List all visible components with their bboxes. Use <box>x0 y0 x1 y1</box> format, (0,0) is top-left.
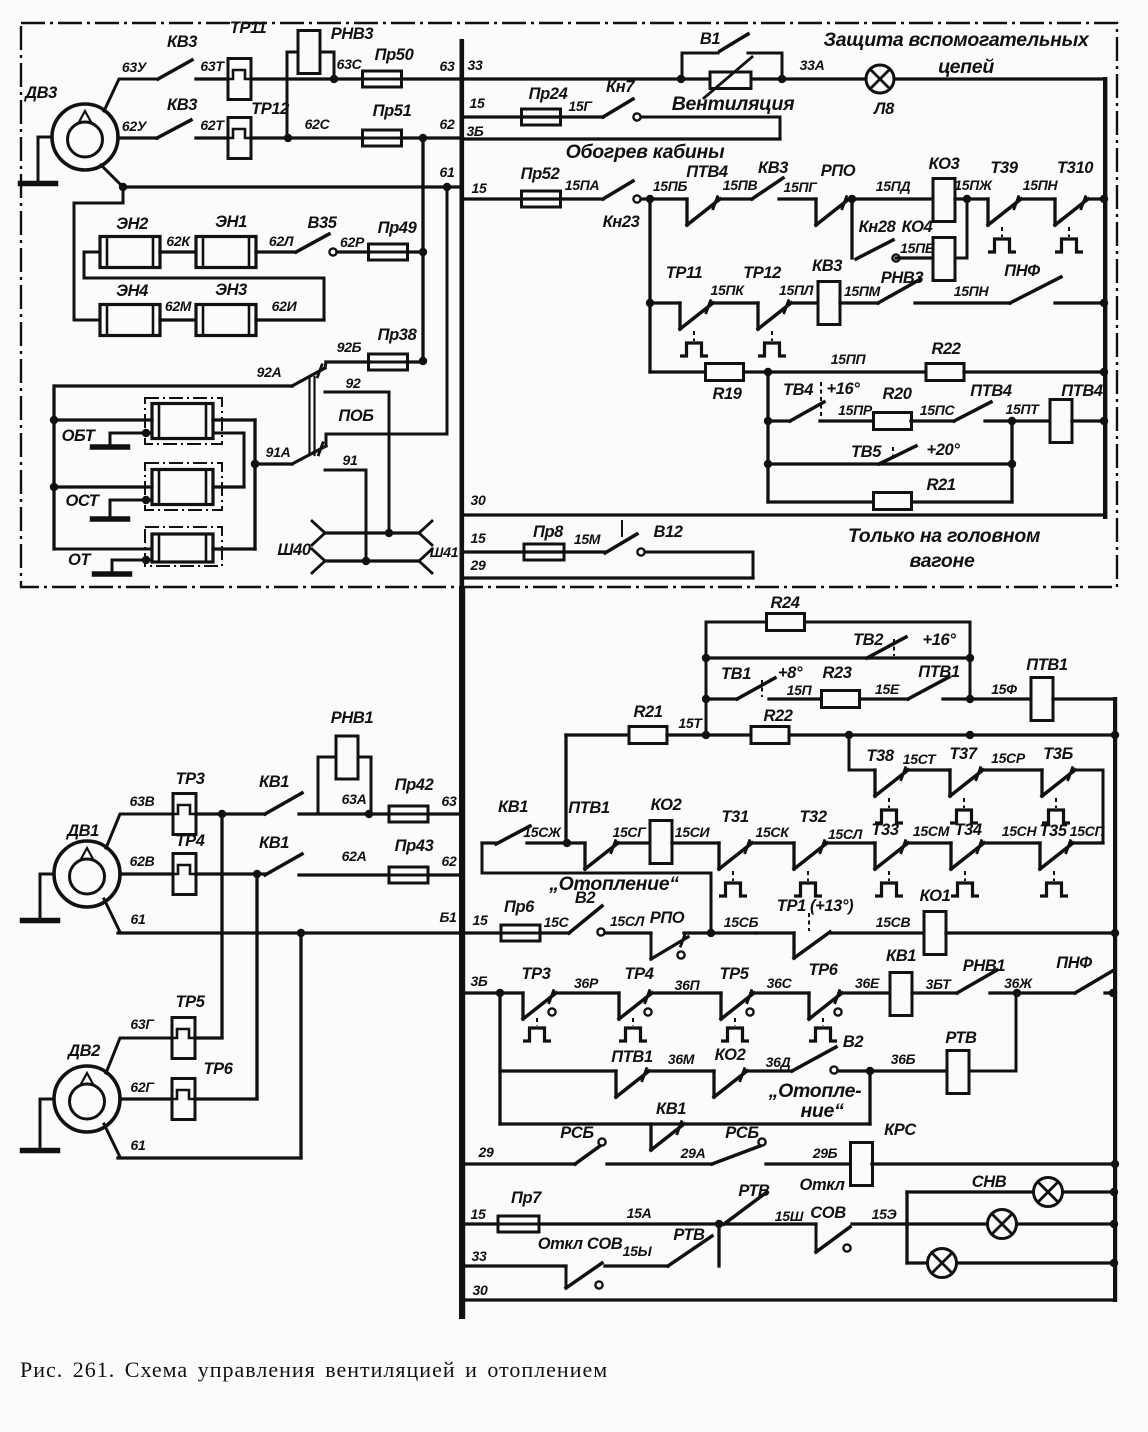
wire 62L <box>256 250 296 253</box>
wire R21 row upper <box>768 500 1012 503</box>
switch POB blade 92A <box>292 362 326 386</box>
label 61 DV2 <box>131 1137 146 1153</box>
thermal contact TR11 <box>680 301 713 356</box>
wire TR11 row start <box>650 301 680 304</box>
svg-text:15: 15 <box>471 1206 486 1222</box>
svg-text:ДВ1: ДВ1 <box>65 822 99 840</box>
lamp L8 <box>866 65 894 93</box>
svg-text:36С: 36С <box>767 975 793 991</box>
label KV1 63A <box>259 773 289 791</box>
label 15 row B <box>470 95 485 111</box>
label 62I <box>272 298 298 314</box>
label T37 <box>949 745 977 763</box>
wire 15PS <box>911 419 954 422</box>
resistor R23 <box>822 691 860 708</box>
wire 62G <box>120 1097 172 1100</box>
svg-text:ПТВ1: ПТВ1 <box>918 663 960 681</box>
svg-text:29: 29 <box>478 1144 494 1160</box>
label PTV1 15SG <box>568 799 610 817</box>
svg-text:15СЛ: 15СЛ <box>828 826 863 842</box>
device OT <box>145 527 222 566</box>
label TR3 elem <box>175 770 204 788</box>
thermal contact T34 <box>951 841 984 896</box>
label V1 <box>700 30 721 48</box>
svg-text:Т33: Т33 <box>871 821 898 839</box>
svg-text:15ПЛ: 15ПЛ <box>779 282 814 298</box>
label 15PD <box>876 178 911 194</box>
svg-text:Т310: Т310 <box>1057 159 1094 177</box>
wire 62V <box>120 872 173 875</box>
svg-text:ТР5: ТР5 <box>175 993 205 1011</box>
wire 61 lower <box>104 899 460 937</box>
label T34 <box>954 821 981 839</box>
label PTV1 blade <box>918 663 960 681</box>
thermal element TR6 <box>172 1079 195 1120</box>
svg-text:62: 62 <box>440 116 455 132</box>
svg-text:15ПГ: 15ПГ <box>783 179 818 195</box>
contact PNF row E <box>1010 277 1061 303</box>
wire 62 to bus <box>401 136 460 139</box>
svg-text:62: 62 <box>442 853 457 869</box>
wire OST left <box>54 485 152 488</box>
label V2 36B <box>843 1033 864 1051</box>
wire 15S row start <box>464 931 501 934</box>
svg-text:+16°: +16° <box>827 380 861 398</box>
label 15M <box>574 531 601 547</box>
switch SOV 15Y <box>566 1263 603 1289</box>
svg-text:Только на головном: Только на головном <box>848 525 1041 547</box>
svg-text:КВ3: КВ3 <box>758 159 788 177</box>
svg-text:ПТВ1: ПТВ1 <box>1026 656 1068 674</box>
svg-text:„Отопление“: „Отопление“ <box>548 873 679 895</box>
wire 15PR <box>820 419 874 422</box>
wire 3B row <box>464 137 780 140</box>
svg-text:62К: 62К <box>166 233 191 249</box>
label Pr7 <box>511 1189 542 1207</box>
label 15A <box>627 1205 652 1221</box>
wire 63V to KV1 <box>196 810 265 818</box>
wire 62A <box>299 873 389 876</box>
label TR5 elem <box>175 993 205 1011</box>
svg-text:ТВ5: ТВ5 <box>851 443 882 461</box>
label 15PE <box>900 240 935 256</box>
motor DV2 <box>54 1066 120 1132</box>
label 62R <box>340 234 365 250</box>
svg-text:РТВ: РТВ <box>738 1182 770 1200</box>
svg-text:33: 33 <box>472 1248 487 1264</box>
svg-text:РСБ: РСБ <box>725 1124 759 1142</box>
svg-text:62И: 62И <box>272 298 298 314</box>
wire 15SN <box>984 841 1040 844</box>
label Sh40 <box>277 541 312 559</box>
vertical to T38 row <box>849 735 875 770</box>
wire 36D <box>748 1069 792 1072</box>
label 29A <box>680 1145 706 1161</box>
svg-text:Защита вспомогательных: Защита вспомогательных <box>824 29 1090 51</box>
wire 3BT <box>912 991 957 994</box>
wire PNF to right bus <box>1105 989 1117 997</box>
svg-text:„Отопле-: „Отопле- <box>768 1080 862 1102</box>
label OST <box>65 492 100 510</box>
svg-text:3Б: 3Б <box>470 973 487 989</box>
label T35 <box>1039 822 1067 840</box>
label R24 <box>770 594 799 612</box>
label 15PV <box>723 177 758 193</box>
wire 15SL-RPO <box>605 931 651 934</box>
contact PTV4 row C <box>687 197 720 225</box>
contact RTV 15A <box>724 1192 767 1224</box>
device OST <box>145 463 222 510</box>
label OT <box>68 551 92 569</box>
label PTV4 G <box>970 382 1012 400</box>
wire TR5 right <box>195 1036 222 1039</box>
wire 15PN row E <box>915 301 1010 304</box>
label R22 lower <box>763 707 792 725</box>
svg-text:ОТ: ОТ <box>68 551 92 569</box>
svg-text:R20: R20 <box>882 385 912 403</box>
label 15PR <box>838 402 873 418</box>
vertical TV5 to PTV4 wire <box>1010 421 1013 502</box>
svg-text:R22: R22 <box>931 340 960 358</box>
label cab heating <box>566 141 725 163</box>
label 15PK <box>710 282 745 298</box>
label 15PP <box>831 351 867 367</box>
label 15SV <box>876 914 911 930</box>
heating loop wire <box>482 844 711 933</box>
label TR6 elem <box>203 1060 233 1078</box>
vertical 3B down <box>498 993 501 1124</box>
svg-text:ЭН4: ЭН4 <box>116 282 148 300</box>
right bus lower section <box>1113 697 1117 1302</box>
label 15 lower <box>473 912 488 928</box>
contact PNF lower <box>1075 970 1114 993</box>
svg-text:Ш41: Ш41 <box>430 544 459 560</box>
switch KV3 lower blade <box>157 120 191 138</box>
wire 15PB <box>641 195 687 203</box>
svg-text:15ПП: 15ПП <box>831 351 867 367</box>
wire 15P <box>769 697 821 700</box>
main vertical bus (terminal strip) <box>459 39 465 1319</box>
button RSB 1 <box>575 1138 606 1164</box>
ground OT <box>95 556 153 574</box>
svg-text:+8°: +8° <box>778 664 803 682</box>
label PTV4 row C <box>686 163 728 181</box>
svg-text:15С: 15С <box>544 914 570 930</box>
svg-text:ОСТ: ОСТ <box>65 492 100 510</box>
wire 33 row <box>464 75 1105 83</box>
label 62 lower <box>442 853 457 869</box>
label T33 <box>871 821 898 839</box>
wire 63S <box>251 75 363 83</box>
vertical 62V-TR6 <box>255 874 258 1099</box>
label 15SP <box>1070 823 1106 839</box>
svg-text:15Г: 15Г <box>568 98 593 114</box>
label 15G <box>568 98 593 114</box>
label KV3 upper <box>167 33 197 51</box>
wire 15SI <box>672 841 719 844</box>
svg-text:КО2: КО2 <box>651 796 682 814</box>
note head car line1 <box>848 525 1041 547</box>
wire 29B <box>766 1162 851 1165</box>
svg-text:РПО: РПО <box>821 162 856 180</box>
label 15PT <box>1006 401 1041 417</box>
contact RNV1 blade <box>957 970 997 993</box>
label 92 <box>346 375 361 391</box>
wire R24 top <box>702 622 974 735</box>
svg-text:ТР11: ТР11 <box>230 19 267 37</box>
svg-text:15ПС: 15ПС <box>920 402 956 418</box>
svg-text:R21: R21 <box>633 703 662 721</box>
label RNV3 contact <box>881 269 924 287</box>
label 3B row <box>466 123 483 139</box>
svg-text:ТР12: ТР12 <box>743 264 781 282</box>
svg-text:ЭН2: ЭН2 <box>116 215 148 233</box>
right bus upper section <box>1103 77 1107 519</box>
svg-text:ДВ3: ДВ3 <box>23 84 57 102</box>
resistor R22 lower <box>751 727 789 744</box>
resistor R21 lower <box>629 727 667 744</box>
ground OBT <box>93 429 153 447</box>
label KV3 row C <box>758 159 788 177</box>
svg-text:15М: 15М <box>574 531 601 547</box>
svg-text:СОВ: СОВ <box>810 1204 846 1222</box>
circuit breaker in 33A row <box>704 57 752 98</box>
svg-text:R19: R19 <box>712 385 742 403</box>
svg-text:63А: 63А <box>342 791 367 807</box>
svg-text:ТР3: ТР3 <box>175 770 204 788</box>
label L8 <box>873 100 895 118</box>
label 15P <box>787 682 813 698</box>
button Kn28 <box>856 240 900 262</box>
label RNV1 <box>331 709 374 727</box>
heater EN4 <box>100 305 160 336</box>
label 15SL row <box>828 826 863 842</box>
switch V2 15SL <box>569 906 605 936</box>
svg-text:36Д: 36Д <box>766 1054 791 1070</box>
svg-text:Вентиляция: Вентиляция <box>672 93 795 115</box>
ground DV2 <box>23 1099 58 1151</box>
label 15 row C <box>472 180 487 196</box>
wire 63G <box>106 1038 172 1073</box>
svg-text:15ПМ: 15ПМ <box>844 283 881 299</box>
wire OT left <box>54 548 152 551</box>
contact PTV1 36M <box>616 1069 649 1097</box>
wire 63U <box>104 79 158 111</box>
wire 62U <box>118 136 157 139</box>
label 15 bottom <box>471 1206 486 1222</box>
svg-text:+20°: +20° <box>927 441 961 459</box>
svg-text:ТР11: ТР11 <box>666 264 703 282</box>
svg-text:15Ш: 15Ш <box>775 1208 804 1224</box>
label Kn7 <box>606 78 635 96</box>
svg-text:КО1: КО1 <box>920 887 951 905</box>
svg-text:СНВ: СНВ <box>972 1173 1007 1191</box>
wire 15M row <box>464 550 605 553</box>
figure caption <box>20 1357 608 1382</box>
svg-text:Пр8: Пр8 <box>533 523 564 541</box>
wire 36R <box>556 991 619 994</box>
fuse Pr49 <box>369 244 408 260</box>
wire KO1 to right bus <box>946 929 1119 937</box>
thermal contact TR4 <box>619 991 652 1041</box>
motor DV1 <box>54 841 120 907</box>
wire 15PD <box>850 197 933 200</box>
svg-text:КВ1: КВ1 <box>498 798 528 816</box>
wire 15T <box>667 731 750 739</box>
label 91 <box>343 452 358 468</box>
svg-text:15СЛ: 15СЛ <box>610 913 645 929</box>
wire PNF to bus <box>1055 299 1108 307</box>
dashed link TV2 <box>893 639 895 656</box>
svg-text:R22: R22 <box>763 707 792 725</box>
label 15PN row E <box>954 283 990 299</box>
svg-text:ТР4: ТР4 <box>175 832 204 850</box>
wire R22 to right bus <box>790 731 1119 739</box>
svg-text:33: 33 <box>468 57 483 73</box>
relay coil PTV4 <box>1050 400 1072 443</box>
wire 61 DV2 <box>104 1124 301 1158</box>
wire 15SR <box>983 768 1042 771</box>
ground DV1 <box>23 874 58 921</box>
label 63 lower <box>442 793 457 809</box>
label Otkl SOV b <box>810 1204 846 1222</box>
svg-text:62Л: 62Л <box>269 233 294 249</box>
label 63 row1 <box>440 58 455 74</box>
label TR12 <box>251 100 289 118</box>
svg-text:Т3Б: Т3Б <box>1043 745 1073 763</box>
label T310 <box>1057 159 1094 177</box>
svg-text:63Г: 63Г <box>130 1016 155 1032</box>
relay coil KO3 <box>933 179 955 222</box>
svg-text:ПНФ: ПНФ <box>1004 262 1040 280</box>
svg-text:62А: 62А <box>342 848 367 864</box>
label RSB 1 <box>560 1124 594 1142</box>
svg-text:ПТВ1: ПТВ1 <box>611 1048 653 1066</box>
svg-text:Пр42: Пр42 <box>395 776 434 794</box>
wire 15PZh <box>1020 197 1055 200</box>
svg-text:ПОБ: ПОБ <box>338 407 374 425</box>
svg-text:R23: R23 <box>822 664 851 682</box>
wire Pr49 to node <box>408 248 427 256</box>
wire 36B <box>838 1067 947 1075</box>
label +20 TV5 <box>927 441 961 459</box>
svg-text:ТВ2: ТВ2 <box>853 631 883 649</box>
label 15S <box>544 914 570 930</box>
svg-text:КВ3: КВ3 <box>167 33 197 51</box>
wire 15S <box>540 931 569 934</box>
label 36E <box>855 975 880 991</box>
label 15Sh <box>775 1208 804 1224</box>
label Pr43 <box>395 837 434 855</box>
ground for DV3 <box>21 137 56 184</box>
title protection line1 <box>824 29 1090 51</box>
wire 33 lower start <box>464 1264 566 1267</box>
svg-text:ТВ4: ТВ4 <box>783 381 813 399</box>
label Kn23 <box>603 213 640 231</box>
svg-text:ЭН3: ЭН3 <box>215 281 247 299</box>
svg-text:РНВ3: РНВ3 <box>881 269 924 287</box>
svg-text:62Р: 62Р <box>340 234 365 250</box>
switch V1 bypass <box>682 53 782 79</box>
svg-text:15СН: 15СН <box>1002 823 1038 839</box>
svg-text:РПО: РПО <box>650 909 685 927</box>
label +16 TV4 <box>827 380 861 398</box>
svg-text:15П: 15П <box>787 682 813 698</box>
label 62G <box>130 1079 155 1095</box>
svg-text:Пр24: Пр24 <box>529 85 568 103</box>
label 62L <box>269 233 294 249</box>
wire 15SK <box>752 841 794 844</box>
svg-text:РНВ3: РНВ3 <box>331 25 374 43</box>
dashed link TR1 <box>808 913 810 931</box>
svg-text:15ПН: 15ПН <box>1023 177 1059 193</box>
lamp SNV 2 <box>988 1210 1017 1239</box>
svg-text:ТР3: ТР3 <box>521 965 550 983</box>
svg-text:ние“: ние“ <box>800 1100 844 1122</box>
label 15T <box>678 715 703 731</box>
svg-text:Кн23: Кн23 <box>603 213 640 231</box>
resistor R24 <box>767 614 805 631</box>
lamp vertical <box>905 1192 908 1263</box>
label R21 lower <box>633 703 662 721</box>
label 15ST <box>903 751 937 767</box>
contact RPO <box>816 197 849 225</box>
wire 15Y <box>605 1264 668 1267</box>
wire 36Zh <box>990 989 1075 997</box>
svg-text:В2: В2 <box>843 1033 864 1051</box>
label KO2 36D <box>715 1046 746 1064</box>
svg-text:ПТВ4: ПТВ4 <box>1061 382 1103 400</box>
contact KV3 row C <box>752 178 783 199</box>
label 15SG <box>612 824 647 840</box>
wire 15SG <box>618 841 650 844</box>
label 36P <box>675 977 701 993</box>
svg-text:91А: 91А <box>266 444 291 460</box>
thermal contact T35 <box>1040 841 1073 896</box>
svg-text:РНВ1: РНВ1 <box>963 957 1006 975</box>
svg-text:КВ1: КВ1 <box>656 1100 686 1118</box>
thermostat TV4 blade <box>790 402 824 421</box>
svg-text:62Т: 62Т <box>200 117 225 133</box>
fuse Pr50 <box>363 71 402 87</box>
svg-text:ПТВ4: ПТВ4 <box>970 382 1012 400</box>
wire R19 row <box>650 370 705 373</box>
wire 30 row <box>464 513 1105 516</box>
svg-text:ОБТ: ОБТ <box>62 427 97 445</box>
svg-text:15СЖ: 15СЖ <box>523 824 562 840</box>
wire KRS to right bus <box>872 1160 1119 1168</box>
svg-text:36Б: 36Б <box>891 1051 916 1067</box>
label T32 <box>799 808 826 826</box>
wire 62K <box>160 250 196 253</box>
label 15PN row C <box>1023 177 1059 193</box>
lamp SNV 3 <box>928 1249 957 1278</box>
thermostat TV5 blade <box>879 446 916 464</box>
label Pr6 <box>504 898 535 916</box>
wire V12 to 29 <box>645 552 753 578</box>
contact RNV3 blade <box>878 280 919 303</box>
label 15PM <box>844 283 881 299</box>
label 15SI <box>675 824 711 840</box>
wire 15ST <box>908 768 950 771</box>
svg-text:Пр38: Пр38 <box>378 326 418 344</box>
svg-text:63У: 63У <box>122 59 148 75</box>
svg-text:3БТ: 3БТ <box>926 976 953 992</box>
label Kn28 <box>859 218 897 236</box>
label KO1 <box>920 887 951 905</box>
ground OST <box>93 496 153 519</box>
wire 30 lower <box>464 1298 1115 1301</box>
